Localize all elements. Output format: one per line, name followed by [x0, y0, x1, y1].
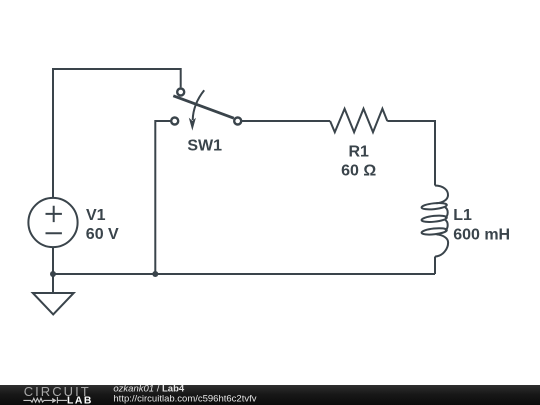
- wire top rail: [52, 68, 181, 70]
- switch SW1: [171, 89, 241, 131]
- svg-text:L1: L1: [453, 207, 472, 224]
- terminal throw right: [234, 118, 241, 125]
- svg-text:LAB: LAB: [67, 395, 93, 405]
- svg-text:600 mH: 600 mH: [453, 227, 510, 244]
- wire bottom rail: [53, 273, 435, 275]
- junction node A: [50, 271, 56, 277]
- footer text: [113, 383, 256, 404]
- svg-text:SW1: SW1: [187, 137, 222, 154]
- svg-text:60 Ω: 60 Ω: [341, 163, 376, 180]
- terminal pole: [177, 89, 184, 96]
- wire resistor to corner: [387, 121, 435, 186]
- wire junction to ground: [52, 274, 54, 293]
- blade: [173, 96, 234, 118]
- CircuitLab logo: [23, 384, 92, 405]
- resistor R1: [330, 109, 387, 133]
- svg-text:60 V: 60 V: [86, 226, 119, 243]
- inductor L1: [421, 186, 448, 257]
- actuation arrow: [193, 90, 205, 120]
- junction node B: [152, 271, 158, 277]
- wire middle rail: [155, 121, 170, 274]
- voltage source V1: [28, 198, 77, 247]
- wire switch to resistor: [242, 120, 330, 122]
- wire V1 bottom to junction: [52, 247, 54, 274]
- ground: [33, 293, 74, 314]
- svg-text:V1: V1: [86, 207, 106, 224]
- terminal throw left: [171, 118, 178, 125]
- wire drop to switch pole: [180, 68, 182, 87]
- svg-text:http://circuitlab.com/c596ht6c: http://circuitlab.com/c596ht6c2tvfv: [113, 393, 256, 404]
- footer bar: [0, 385, 540, 405]
- svg-text:R1: R1: [348, 144, 369, 161]
- wire left rail: [52, 69, 54, 198]
- wire inductor to bottom rail: [434, 257, 436, 275]
